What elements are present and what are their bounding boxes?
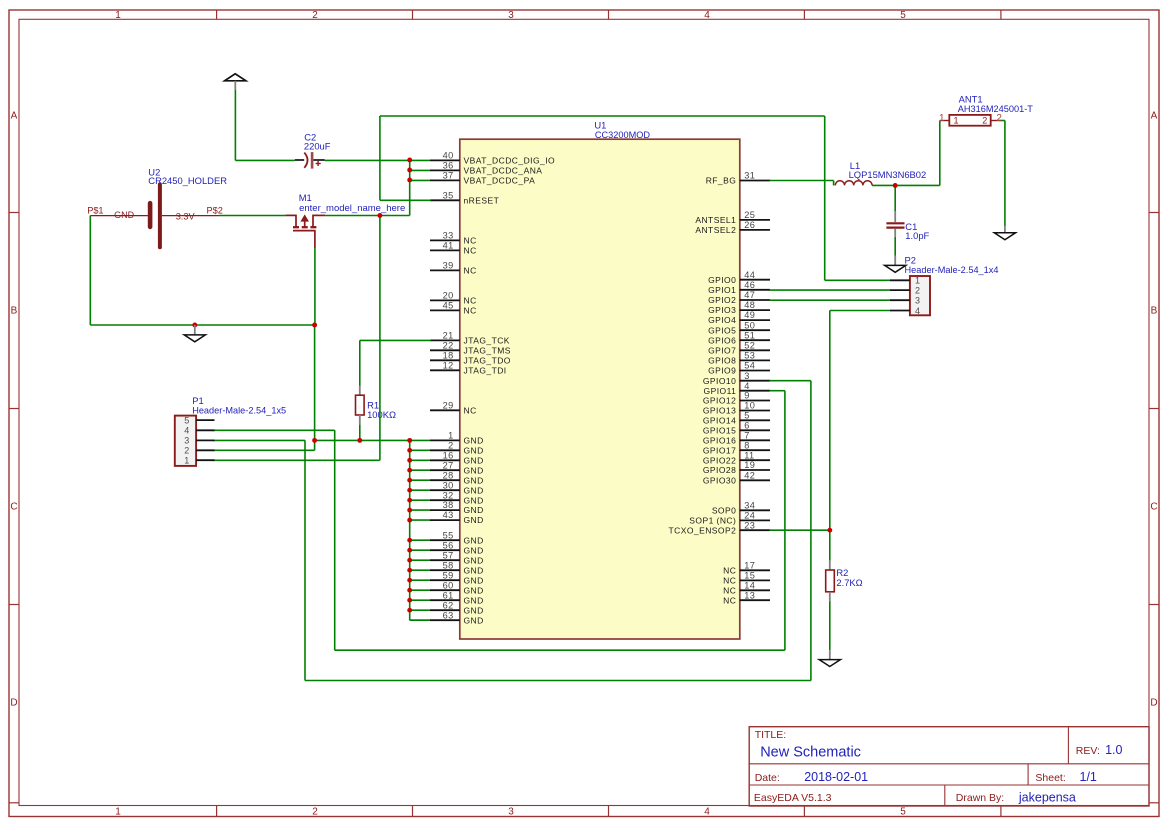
wire GPIO1 to P2 pin2 [769, 289, 890, 291]
U1 pin 46 (GPIO1) right [708, 280, 770, 295]
svg-text:54: 54 [744, 361, 755, 371]
svg-text:6: 6 [744, 420, 749, 430]
svg-text:NC: NC [723, 576, 736, 586]
wire rail to P1 pin2 riser [314, 440, 316, 450]
wire M1 drain to VBAT corner [325, 215, 410, 217]
svg-text:62: 62 [443, 600, 454, 610]
svg-text:NC: NC [464, 236, 477, 246]
wire VBAT stub pin 40 [410, 159, 430, 161]
ground symbol under C1 [885, 256, 906, 273]
svg-text:GND: GND [464, 465, 484, 475]
svg-text:50: 50 [744, 320, 755, 330]
svg-text:GPIO12: GPIO12 [703, 396, 736, 406]
U1 pin 32 (GND) left [430, 490, 484, 505]
svg-text:NC: NC [464, 246, 477, 256]
svg-text:100KΩ: 100KΩ [367, 409, 396, 420]
U1 pin 1 (GND) left [430, 431, 484, 446]
wire GPIO2 to P2 pin3 [769, 299, 890, 301]
svg-text:2: 2 [312, 807, 318, 818]
svg-text:60: 60 [443, 580, 454, 590]
U1 pin 26 (ANTSEL2) right [695, 220, 770, 235]
svg-text:33: 33 [443, 231, 454, 241]
title block outline [749, 727, 1149, 806]
svg-text:17: 17 [744, 560, 755, 570]
svg-text:14: 14 [744, 580, 755, 590]
svg-text:11: 11 [744, 450, 754, 460]
U1 pin 47 (GPIO2) right [708, 290, 770, 305]
svg-text:SOP0: SOP0 [712, 505, 736, 515]
wire M1 gate drop to rail [314, 248, 316, 325]
U1 pin 40 (VBAT_DCDC_DIG_IO) left [430, 151, 555, 166]
U1 pin 50 (GPIO5) right [708, 320, 770, 335]
svg-text:GND: GND [464, 445, 484, 455]
svg-text:13: 13 [744, 590, 755, 600]
svg-text:53: 53 [744, 351, 755, 361]
svg-text:2.7KΩ: 2.7KΩ [836, 577, 862, 588]
wire VBAT stub pin 36 [410, 169, 430, 171]
svg-text:D: D [1150, 698, 1157, 709]
antenna ANT1 pin 1 stub [940, 120, 950, 122]
svg-text:GPIO0: GPIO0 [708, 275, 736, 285]
svg-text:1: 1 [915, 276, 920, 286]
wire top loop horizontal [380, 115, 825, 117]
U1 pin 31 (RF_BG) right [706, 171, 770, 186]
U1 pin 55 (GND) left [430, 530, 484, 545]
resistor R1 bottom pin [359, 415, 361, 425]
wire top loop vertical to P2 pin1 [824, 116, 826, 280]
wire P1 pin3 vertical down [304, 440, 306, 680]
svg-text:40: 40 [443, 151, 454, 161]
svg-text:VBAT_DCDC_PA: VBAT_DCDC_PA [464, 176, 536, 186]
U1 pin 23 (TCXO_ENSOP2) right [669, 520, 770, 535]
svg-text:26: 26 [744, 220, 755, 230]
svg-text:44: 44 [744, 270, 755, 280]
svg-text:39: 39 [443, 261, 454, 271]
svg-text:27: 27 [443, 460, 454, 470]
wire ANT1 pin1 vertical [939, 121, 941, 186]
VCC power flag [225, 74, 246, 90]
svg-text:JTAG_TCK: JTAG_TCK [464, 336, 510, 346]
svg-text:35: 35 [443, 190, 454, 200]
capacitor C2 right pin [314, 159, 325, 161]
U1 pin 17 (NC) right [723, 560, 770, 575]
wire battery minus vertical [89, 216, 91, 325]
capacitor C2 polarity plus [316, 161, 321, 166]
svg-text:GND: GND [464, 505, 484, 515]
resistor R2 bottom pin [829, 592, 831, 602]
U1 pin 10 (GPIO13) right [703, 401, 770, 416]
U1 pin 14 (NC) right [723, 580, 770, 595]
svg-text:A: A [11, 111, 18, 122]
svg-text:nRESET: nRESET [464, 195, 500, 205]
transistor M1 [285, 215, 325, 248]
U1 pin 63 (GND) left [430, 610, 484, 625]
svg-text:GND: GND [464, 585, 484, 595]
wire ground rail under battery [90, 324, 314, 326]
battery U2 pin P$2 (3.3V side) [162, 215, 220, 217]
U1 pin 59 (GND) left [430, 570, 484, 585]
wire P2 pin4 vertical to R2 [829, 311, 831, 531]
wire RF_BG jog [833, 181, 835, 186]
svg-text:GPIO2: GPIO2 [708, 295, 736, 305]
U1 pin 38 (GND) left [430, 500, 484, 515]
svg-text:47: 47 [744, 290, 755, 300]
svg-text:P1: P1 [192, 395, 203, 406]
battery U2 pin P$1 (GND side) [90, 215, 148, 217]
U1 pin 33 (NC) left [430, 231, 477, 246]
svg-text:GPIO16: GPIO16 [703, 435, 736, 445]
svg-text:Date:: Date: [755, 772, 780, 784]
svg-text:16: 16 [443, 450, 454, 460]
U1 pin 12 (JTAG_TDI) left [430, 360, 507, 375]
wire nRESET vertical from top loop [379, 116, 381, 200]
U1 pin 53 (GPIO8) right [708, 351, 770, 366]
svg-text:1: 1 [954, 115, 959, 125]
wire R2 top [829, 530, 831, 561]
svg-text:49: 49 [744, 310, 755, 320]
U1 pin 29 (NC) left [430, 400, 477, 415]
svg-text:NC: NC [464, 306, 477, 316]
U1 pin 27 (GND) left [430, 460, 484, 475]
IC U1 body [460, 139, 740, 639]
svg-text:45: 45 [443, 301, 454, 311]
svg-text:Header-Male-2.54_1x5: Header-Male-2.54_1x5 [192, 406, 286, 416]
svg-text:GPIO28: GPIO28 [703, 465, 736, 475]
resistor R1 body [356, 395, 365, 415]
wire R1 top to JTAG_TCK [359, 340, 361, 385]
U1 pin 25 (ANTSEL1) right [695, 210, 770, 225]
svg-text:4: 4 [704, 10, 710, 21]
svg-text:VBAT_DCDC_ANA: VBAT_DCDC_ANA [464, 166, 543, 176]
wire bottom loop GPIO10 horizontal [305, 680, 811, 682]
wire P1 pin4 horizontal [213, 429, 335, 431]
U1 pin 41 (NC) left [430, 241, 477, 256]
svg-text:GND: GND [464, 485, 484, 495]
U1 pin 43 (GND) left [430, 510, 484, 525]
title block REV divider [1067, 727, 1069, 764]
U1 pin 4 (GPIO11) right [704, 381, 770, 396]
wire GPIO10 to pin 3 [769, 380, 811, 382]
wire ANT1 pin2 vertical to ground [1004, 121, 1006, 227]
svg-text:GPIO6: GPIO6 [708, 335, 736, 345]
U1 pin 37 (VBAT_DCDC_PA) left [430, 171, 535, 186]
svg-text:VBAT_DCDC_DIG_IO: VBAT_DCDC_DIG_IO [464, 156, 556, 166]
svg-text:GND: GND [464, 595, 484, 605]
svg-text:P$1: P$1 [87, 205, 103, 215]
wire P1 pin2 horizontal [213, 449, 315, 451]
svg-text:2018-02-01: 2018-02-01 [804, 770, 868, 784]
svg-text:GPIO5: GPIO5 [708, 325, 736, 335]
svg-text:jakepensa: jakepensa [1018, 791, 1076, 805]
U1 pin 36 (VBAT_DCDC_ANA) left [430, 161, 542, 176]
U1 pin 54 (GPIO9) right [708, 361, 770, 376]
svg-text:1.0: 1.0 [1105, 743, 1122, 757]
U1 pin 20 (NC) left [430, 291, 477, 306]
wire VCC to C2 left [235, 159, 294, 161]
svg-text:NC: NC [723, 595, 736, 605]
antenna ANT1 pin 2 stub [991, 120, 999, 122]
svg-text:Sheet:: Sheet: [1035, 772, 1065, 784]
svg-text:TITLE:: TITLE: [755, 729, 787, 741]
title block DrawnBy divider [944, 785, 946, 806]
U1 pin 48 (GPIO3) right [708, 300, 770, 315]
capacitor C2 curved plate [304, 153, 307, 168]
svg-text:37: 37 [443, 171, 454, 181]
svg-text:2: 2 [312, 10, 318, 21]
svg-text:19: 19 [744, 460, 755, 470]
svg-text:61: 61 [443, 590, 454, 600]
U1 pin 18 (JTAG_TDO) left [430, 350, 511, 365]
svg-text:AH316M245001-T: AH316M245001-T [958, 104, 1033, 114]
U1 pin 56 (GND) left [430, 540, 484, 555]
svg-text:3: 3 [508, 807, 514, 818]
resistor R2 top pin [829, 561, 831, 571]
ground symbol under R2 [819, 650, 840, 666]
svg-text:8: 8 [744, 440, 749, 450]
U1 pin 58 (GND) left [430, 560, 484, 575]
wire VBAT vertical bus [409, 160, 411, 215]
svg-text:9: 9 [744, 391, 749, 401]
wire bottom loop GPIO11 horizontal [335, 649, 785, 651]
svg-text:43: 43 [443, 510, 454, 520]
svg-text:GPIO8: GPIO8 [708, 356, 736, 366]
svg-text:GPIO11: GPIO11 [704, 386, 737, 396]
svg-text:GPIO9: GPIO9 [708, 366, 736, 376]
wire TCXO_ENSOP2 to R2 junction [769, 529, 829, 531]
svg-text:1: 1 [939, 113, 945, 124]
svg-text:1/1: 1/1 [1080, 770, 1097, 784]
wire to P2 pin 1 [825, 279, 890, 281]
svg-text:32: 32 [443, 490, 454, 500]
title block Sheet divider [1027, 764, 1029, 785]
svg-text:P$2: P$2 [207, 205, 223, 215]
svg-text:25: 25 [744, 210, 755, 220]
svg-text:GPIO14: GPIO14 [703, 415, 736, 425]
header P2 pins 1-4 [890, 276, 920, 316]
antenna ANT1 body [949, 115, 990, 126]
header P1 pins 1-5 [184, 415, 214, 465]
svg-text:GPIO10: GPIO10 [703, 376, 736, 386]
svg-text:C: C [1150, 502, 1157, 513]
capacitor C2 left pin [295, 159, 304, 161]
svg-text:SOP1 (NC): SOP1 (NC) [689, 516, 736, 526]
svg-text:B: B [11, 306, 18, 317]
svg-text:GND: GND [464, 575, 484, 585]
wire GND bus stubs to pins [410, 440, 430, 620]
wire nRESET horizontal to pin 35 [380, 199, 431, 201]
svg-text:EasyEDA V5.1.3: EasyEDA V5.1.3 [754, 792, 832, 804]
svg-text:GPIO1: GPIO1 [708, 285, 736, 295]
svg-text:TCXO_ENSOP2: TCXO_ENSOP2 [669, 525, 737, 535]
svg-text:4: 4 [184, 426, 189, 436]
svg-text:GND: GND [464, 535, 484, 545]
svg-text:29: 29 [443, 400, 454, 410]
svg-text:NC: NC [464, 296, 477, 306]
svg-text:A: A [1151, 111, 1158, 122]
U1 pin 24 (SOP1 (NC)) right [689, 511, 770, 526]
svg-text:ANTSEL2: ANTSEL2 [695, 225, 736, 235]
capacitor C1 bottom plate [886, 227, 904, 229]
U1 pin 42 (GPIO30) right [703, 470, 770, 485]
svg-text:GPIO17: GPIO17 [703, 445, 736, 455]
svg-text:B: B [1151, 306, 1158, 317]
U1 pin 3 (GPIO10) right [703, 371, 770, 386]
wire rail down to GND row [314, 325, 316, 440]
svg-text:1: 1 [448, 431, 453, 441]
svg-text:23: 23 [744, 520, 755, 530]
svg-text:1.0pF: 1.0pF [905, 230, 929, 241]
svg-text:2: 2 [915, 285, 920, 295]
wire GND row 1 to bus [315, 439, 410, 441]
svg-text:41: 41 [443, 241, 454, 251]
svg-text:12: 12 [443, 360, 454, 370]
svg-text:GND: GND [464, 475, 484, 485]
header P2 body [910, 276, 930, 315]
U1 pin 2 (GND) left [430, 440, 484, 455]
title block row divider 1 [749, 763, 1149, 765]
svg-text:NC: NC [464, 266, 477, 276]
svg-text:4: 4 [915, 306, 920, 316]
capacitor C1 bottom pin [894, 229, 896, 237]
svg-text:NC: NC [723, 585, 736, 595]
svg-text:NC: NC [723, 565, 736, 575]
svg-text:JTAG_TDI: JTAG_TDI [464, 365, 507, 375]
svg-text:GND: GND [464, 545, 484, 555]
U1 pin 61 (GND) left [430, 590, 484, 605]
svg-text:18: 18 [443, 350, 454, 360]
U1 pin 57 (GND) left [430, 550, 484, 565]
svg-text:GPIO7: GPIO7 [708, 345, 736, 355]
svg-text:GND: GND [114, 210, 135, 220]
wire GND bus vertical [409, 440, 411, 620]
svg-text:JTAG_TMS: JTAG_TMS [464, 345, 511, 355]
wire P1 pin4 vertical down [334, 430, 336, 650]
svg-text:20: 20 [443, 291, 454, 301]
svg-text:63: 63 [443, 610, 454, 620]
U1 pin 21 (JTAG_TCK) left [430, 331, 510, 346]
svg-text:GND: GND [464, 515, 484, 525]
svg-text:10: 10 [744, 401, 755, 411]
svg-text:GND: GND [464, 605, 484, 615]
wire M1 junction vertical to P1 pin1 row [379, 216, 381, 461]
svg-text:22: 22 [443, 340, 454, 350]
U1 pin 60 (GND) left [430, 580, 484, 595]
U1 pin 62 (GND) left [430, 600, 484, 615]
svg-text:M1: M1 [299, 192, 312, 203]
wire battery plus to M1 [220, 215, 286, 217]
svg-text:5: 5 [900, 807, 906, 818]
ground symbol under battery rail [184, 325, 205, 342]
svg-text:24: 24 [744, 511, 755, 521]
svg-text:220uF: 220uF [304, 141, 331, 152]
inductor L1 [835, 181, 872, 186]
svg-text:GPIO4: GPIO4 [708, 315, 736, 325]
U1 pin 52 (GPIO7) right [708, 340, 770, 355]
svg-text:C: C [10, 502, 17, 513]
resistor R2 body [826, 570, 835, 592]
svg-text:GPIO13: GPIO13 [703, 406, 736, 416]
U1 pin 51 (GPIO6) right [708, 330, 770, 345]
U1 pin 39 (NC) left [430, 261, 477, 276]
wire GND bus to pin 63 [410, 619, 430, 621]
svg-text:36: 36 [443, 161, 454, 171]
wire JTAG_TCK horizontal [360, 339, 431, 341]
svg-text:28: 28 [443, 470, 454, 480]
U1 pin 9 (GPIO12) right [703, 391, 770, 406]
svg-text:30: 30 [443, 480, 454, 490]
svg-text:57: 57 [443, 550, 454, 560]
svg-text:52: 52 [744, 340, 755, 350]
U1 pin 30 (GND) left [430, 480, 484, 495]
U1 pin 15 (NC) right [723, 571, 770, 586]
svg-text:1: 1 [115, 807, 121, 818]
U1 pin 49 (GPIO4) right [708, 310, 770, 325]
svg-text:2: 2 [448, 440, 453, 450]
svg-text:JTAG_TDO: JTAG_TDO [464, 355, 511, 365]
svg-text:46: 46 [744, 280, 755, 290]
wire P1 pin1 horizontal [213, 459, 380, 461]
U1 pin 34 (SOP0) right [712, 500, 770, 515]
svg-text:59: 59 [443, 570, 454, 580]
svg-text:P2: P2 [905, 254, 916, 265]
svg-text:38: 38 [443, 500, 454, 510]
svg-text:21: 21 [443, 331, 454, 341]
svg-text:GND: GND [464, 495, 484, 505]
U1 pin 11 (GPIO22) right [703, 450, 770, 465]
header P1 body [175, 416, 196, 466]
svg-text:ANTSEL1: ANTSEL1 [695, 215, 736, 225]
svg-text:GND: GND [464, 555, 484, 565]
svg-text:48: 48 [744, 300, 755, 310]
svg-text:5: 5 [184, 415, 189, 425]
battery U2 long plate [158, 184, 162, 247]
svg-text:56: 56 [443, 540, 454, 550]
svg-text:4: 4 [704, 807, 710, 818]
capacitor C1 top plate [886, 222, 904, 224]
wire L1 to ANT1 corner [872, 184, 940, 186]
svg-text:GND: GND [464, 436, 484, 446]
svg-text:enter_model_name_here: enter_model_name_here [299, 203, 405, 214]
svg-text:2: 2 [982, 115, 987, 125]
wire C1 to ground [894, 237, 896, 256]
svg-text:1: 1 [115, 10, 121, 21]
U1 pin 13 (NC) right [723, 590, 770, 605]
svg-text:5: 5 [900, 10, 906, 21]
svg-text:RF_BG: RF_BG [706, 176, 737, 186]
wire GPIO11 to pin 4 [769, 390, 785, 392]
svg-text:4: 4 [744, 381, 749, 391]
svg-text:GPIO30: GPIO30 [703, 475, 736, 485]
svg-text:REV:: REV: [1076, 745, 1100, 757]
svg-text:3: 3 [744, 371, 749, 381]
wire P1 pin3 horizontal [213, 439, 305, 441]
svg-text:2: 2 [996, 113, 1002, 124]
resistor R1 top pin [359, 386, 361, 396]
wire R1 bottom to GND row [359, 425, 361, 441]
svg-text:1: 1 [184, 456, 189, 466]
U1 pin 7 (GPIO16) right [703, 430, 770, 445]
U1 pin 35 (nRESET) left [430, 190, 499, 205]
U1 pin 8 (GPIO17) right [703, 440, 770, 455]
svg-text:31: 31 [744, 171, 755, 181]
capacitor C1 top pin [894, 211, 896, 222]
svg-text:GND: GND [464, 565, 484, 575]
U1 pin 5 (GPIO14) right [703, 410, 770, 425]
wire C1 branch down [894, 186, 896, 212]
svg-text:Header-Male-2.54_1x4: Header-Male-2.54_1x4 [905, 265, 999, 275]
svg-text:D: D [10, 698, 17, 709]
svg-text:GPIO15: GPIO15 [703, 425, 736, 435]
